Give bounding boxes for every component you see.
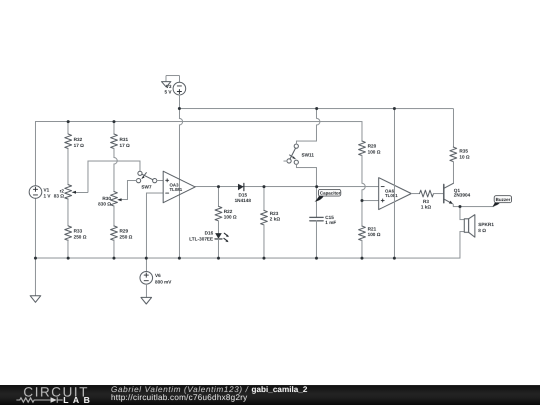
svg-text:830 Ω: 830 Ω <box>98 202 111 207</box>
svg-text:R31: R31 <box>119 137 128 142</box>
svg-text:800 mV: 800 mV <box>155 279 172 284</box>
svg-text:R20: R20 <box>368 144 377 149</box>
svg-text:LAB: LAB <box>63 395 94 405</box>
resistor R21 <box>359 201 381 259</box>
transistor Q1 2N3904 <box>444 183 471 204</box>
junction: V1 bottom at bottom rail <box>34 257 37 260</box>
wire: Q1 emitter to node <box>453 204 494 207</box>
wire: R3 to Q1 base <box>433 193 443 195</box>
svg-text:5 V: 5 V <box>164 89 172 94</box>
junction: R22 top at signal rail <box>217 185 220 188</box>
svg-text:1 kΩ: 1 kΩ <box>421 204 432 209</box>
svg-text:D15: D15 <box>238 192 247 197</box>
junction: C15 bottom <box>315 257 318 260</box>
svg-text:SW7: SW7 <box>141 185 152 190</box>
svg-text:V1: V1 <box>43 188 49 193</box>
svg-text:100 Ω: 100 Ω <box>224 215 237 220</box>
wire: second rail y=121.6 <box>35 121 362 123</box>
switch SW11 <box>284 144 315 164</box>
voltage source V3 <box>164 82 185 108</box>
junction: R29 bottom <box>112 257 115 260</box>
junction: R31 top <box>112 120 115 123</box>
svg-text:83 Ω: 83 Ω <box>54 194 65 199</box>
wire: bottom rail <box>35 257 460 259</box>
svg-text:R21: R21 <box>368 226 377 231</box>
svg-text:17 Ω: 17 Ω <box>74 143 85 148</box>
speaker SPKR1 <box>464 215 494 238</box>
junction: V3 output at top rail <box>178 107 181 110</box>
junction: OA3 V- at bottom rail <box>178 257 181 260</box>
svg-text:r2: r2 <box>60 188 65 193</box>
annotation: Capacitor flag <box>315 189 341 201</box>
svg-text:2N3904: 2N3904 <box>454 193 471 198</box>
capacitor C15 <box>310 187 337 259</box>
wire: top supply rail <box>179 108 453 110</box>
junction: R23 bottom <box>262 257 265 260</box>
junction: D16 bottom <box>217 257 220 260</box>
op-amp OA6 TL081 <box>379 178 412 210</box>
diode D15 1N4148 <box>235 183 252 203</box>
wire: OA6 power column <box>393 109 395 259</box>
wire: OA3 minus input down to bottom rail <box>146 193 163 258</box>
svg-text:10 Ω: 10 Ω <box>459 155 470 160</box>
footer bar <box>0 385 540 405</box>
svg-text:100 Ω: 100 Ω <box>368 232 381 237</box>
junction: OA6 plus input node <box>360 199 363 202</box>
junction: R23 top at signal rail <box>262 185 265 188</box>
resistor R20 <box>359 122 381 201</box>
svg-text:SPKR1: SPKR1 <box>478 222 494 227</box>
svg-text:250 Ω: 250 Ω <box>74 234 87 239</box>
voltage source V6 <box>140 258 172 284</box>
junction: OA6 V+ at top rail <box>393 107 396 110</box>
wire: SW7 common to OA3 plus <box>157 180 163 182</box>
svg-text:8 Ω: 8 Ω <box>478 228 486 233</box>
svg-text:TL081: TL081 <box>169 187 182 192</box>
ground (at V3) <box>161 76 179 87</box>
annotation: Buzzer flag <box>492 196 511 207</box>
resistor R33 <box>65 199 87 258</box>
svg-text:R32: R32 <box>74 137 83 142</box>
wire: OA6 output to R3 <box>411 193 419 195</box>
svg-text:R23: R23 <box>270 211 279 216</box>
resistor R32 <box>65 122 84 185</box>
svg-text:SW11: SW11 <box>301 152 314 157</box>
resistor R23 <box>261 187 281 259</box>
junction: R21 bottom <box>360 257 363 260</box>
wire: speaker bottom to bottom rail <box>460 232 464 259</box>
junction: OA6 V- at bottom rail <box>393 257 396 260</box>
wire: R20/R21 node to OA6 plus input <box>362 200 379 202</box>
junction: C15/SW11 node at signal rail <box>315 185 318 188</box>
voltage source V1 <box>29 186 51 199</box>
svg-text:R22: R22 <box>224 209 233 214</box>
junction: Q1 emitter / speaker node <box>458 205 461 208</box>
ground (below V6) <box>141 284 152 304</box>
resistor R3 <box>419 190 433 209</box>
wire: top rail to SW11 with hop <box>296 109 320 144</box>
junction: R32 top <box>67 120 70 123</box>
wire: signal rail OA3 out to OA6 minus <box>195 186 379 188</box>
junction: R33 bottom <box>67 257 70 260</box>
wire: SW7 lower throw to R30 wiper <box>127 180 136 182</box>
wire: V3/OA3 power column down through OA3 to bottom rail (hop over second rail) <box>179 109 182 259</box>
potentiometer R30 <box>98 181 136 207</box>
ground (bottom-left) <box>30 258 41 302</box>
junction: V6 top at bottom rail <box>145 257 148 260</box>
svg-text:LTL-307EE: LTL-307EE <box>189 237 213 242</box>
svg-text:1 V: 1 V <box>43 194 51 199</box>
svg-text:TL081: TL081 <box>385 193 398 198</box>
svg-text:R35: R35 <box>459 148 468 153</box>
resistor R35 <box>450 109 470 184</box>
svg-text:1 mF: 1 mF <box>325 220 336 225</box>
LED D16 LTL-307EE <box>189 231 229 259</box>
svg-text:Buzzer: Buzzer <box>496 197 511 202</box>
switch SW7 <box>136 171 156 190</box>
svg-text:V6: V6 <box>155 273 161 278</box>
svg-text:100 Ω: 100 Ω <box>368 150 381 155</box>
potentiometer r2 <box>54 161 88 199</box>
resistor R22 <box>215 187 237 234</box>
svg-text:R29: R29 <box>119 229 128 234</box>
svg-text:250 Ω: 250 Ω <box>119 234 132 239</box>
svg-text:V3: V3 <box>166 84 172 89</box>
svg-text:1N4148: 1N4148 <box>235 198 252 203</box>
junction: SW11 branch at top rail <box>315 107 318 110</box>
CircuitLab logo <box>0 385 110 405</box>
svg-text:17 Ω: 17 Ω <box>119 143 130 148</box>
resistor R29 <box>111 206 133 258</box>
svg-text:R30: R30 <box>102 196 111 201</box>
svg-text:2 kΩ: 2 kΩ <box>270 217 281 222</box>
wire: r2 wiper rail to SW7 <box>88 161 140 171</box>
op-amp OA3 TL081 <box>163 171 195 203</box>
svg-text:R33: R33 <box>74 229 83 234</box>
wire: SW11 bottom to capacitor node <box>296 164 316 186</box>
wire: node down to speaker top <box>460 207 464 220</box>
wire: V1 bottom to bottom rail and ground <box>34 198 36 258</box>
svg-text:Capacitor: Capacitor <box>320 191 341 196</box>
svg-text:D16: D16 <box>205 231 214 236</box>
resistor R31 <box>111 122 130 192</box>
wire: V1 top to rail <box>34 122 36 186</box>
